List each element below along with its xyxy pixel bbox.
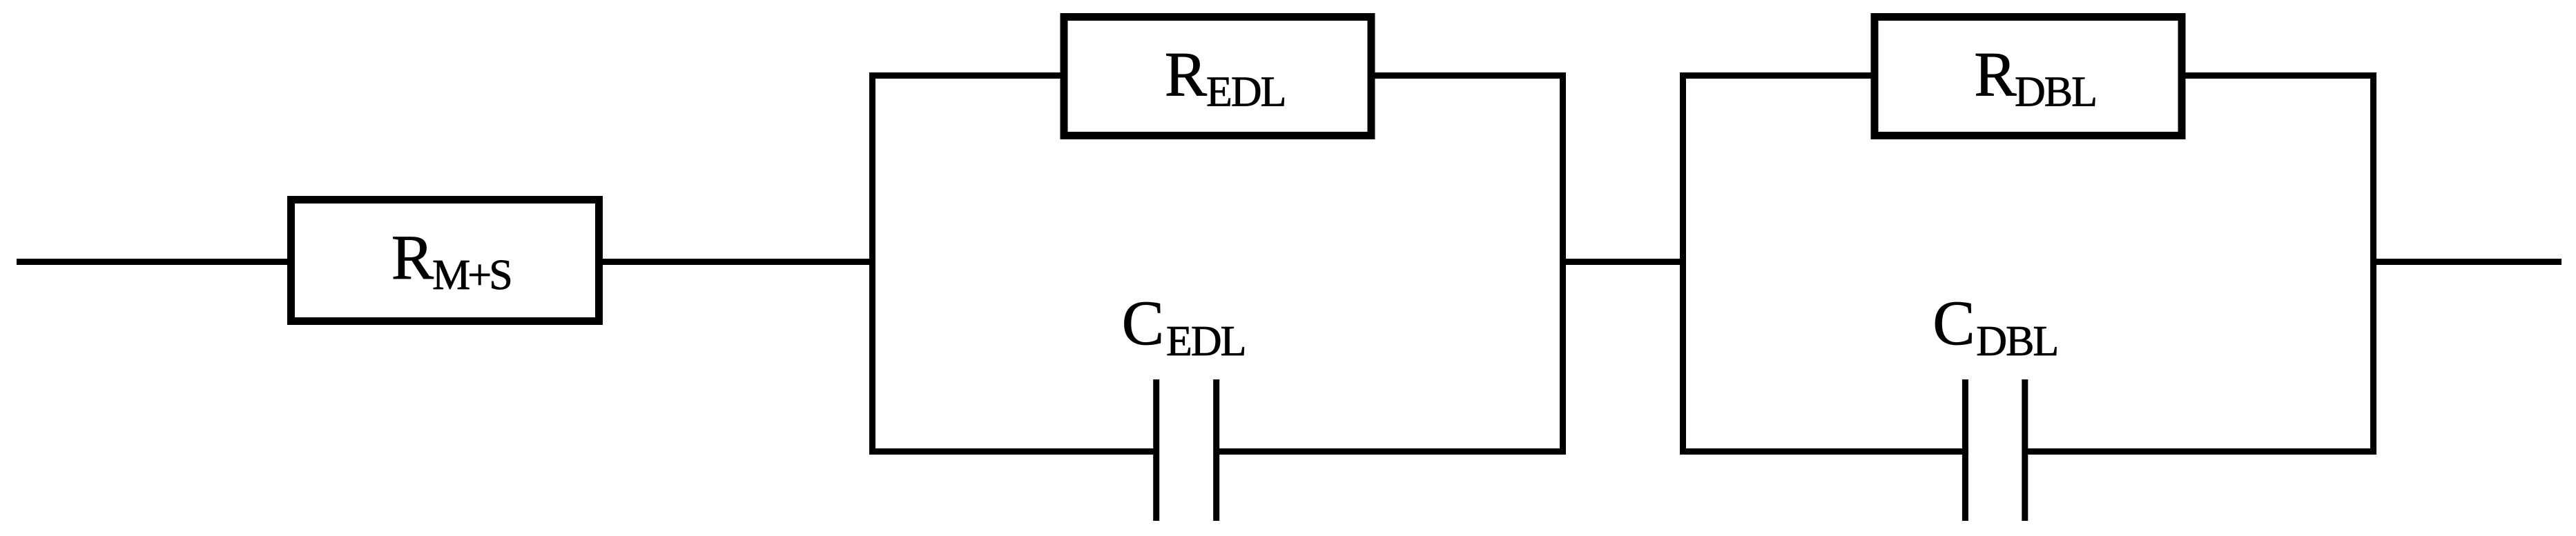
- svg-text:R: R: [1974, 39, 2017, 110]
- wire: R_M+S to parallel loop 1: [600, 259, 875, 265]
- capacitor C_EDL left plate: [1153, 379, 1159, 521]
- wire: right lead out of loop 2: [2370, 259, 2562, 265]
- wire: loop 1 bottom branch, left of C_EDL: [869, 448, 1159, 455]
- svg-text:R: R: [391, 222, 434, 292]
- resistor R_DBL box: [1875, 17, 2182, 136]
- wire: loop 1 bottom branch, right of C_EDL: [1214, 448, 1567, 455]
- svg-text:R: R: [1165, 39, 1208, 110]
- resistor R_M+S (membrane + solution resistance) box: [291, 200, 599, 321]
- capacitor C_DBL right plate: [2022, 379, 2028, 521]
- capacitor C_EDL right plate: [1213, 379, 1219, 521]
- svg-text:EDL: EDL: [1206, 69, 1286, 116]
- wire: left lead into R_M+S: [17, 259, 290, 265]
- wire: loop 1 top branch (through R_EDL): [869, 72, 1566, 79]
- svg-text:DBL: DBL: [2015, 69, 2096, 116]
- svg-text:C: C: [1122, 288, 1164, 358]
- wire: loop 1 left vertical branch: [869, 72, 875, 455]
- svg-text:C: C: [1933, 288, 1975, 358]
- svg-text:M+S: M+S: [432, 252, 510, 299]
- wire: loop 2 right vertical branch: [2370, 72, 2376, 455]
- wire: loop 2 bottom branch, right of C_DBL: [2022, 448, 2377, 455]
- svg-text:EDL: EDL: [1166, 318, 1246, 365]
- wire: loop 2 top branch (through R_DBL): [1680, 72, 2376, 79]
- svg-text:DBL: DBL: [1976, 318, 2057, 365]
- wire: loop 1 right vertical branch: [1560, 72, 1566, 455]
- resistor R_EDL box: [1064, 17, 1371, 136]
- wire: loop 1 to loop 2: [1560, 259, 1686, 265]
- wire: loop 2 bottom branch, left of C_DBL: [1680, 448, 1968, 455]
- capacitor C_DBL left plate: [1962, 379, 1968, 521]
- wire: loop 2 left vertical branch: [1680, 72, 1686, 455]
